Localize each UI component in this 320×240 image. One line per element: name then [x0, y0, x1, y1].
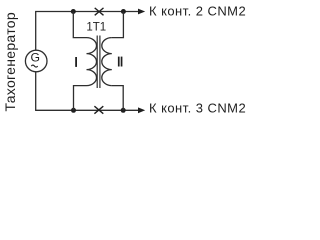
junction node: secondary bottom [121, 108, 126, 113]
label winding I [75, 57, 77, 67]
svg-text:К конт. 3 CNM2: К конт. 3 CNM2 [149, 100, 246, 115]
wire: primary top lead [73, 12, 86, 38]
transformer 1T1 primary winding I [87, 38, 97, 86]
wire: secondary top lead [112, 12, 124, 38]
svg-text:G: G [30, 51, 39, 65]
wire: left vertical upper segment [35, 12, 37, 51]
transformer core [96, 36, 98, 89]
svg-text:Тахогенератор: Тахогенератор [2, 12, 18, 111]
junction node: primary bottom [71, 108, 76, 113]
wire: secondary bottom lead [112, 86, 123, 111]
generator G1 circle [25, 50, 47, 72]
label winding II [118, 57, 120, 67]
svg-text:К конт. 2 CNM2: К конт. 2 CNM2 [149, 3, 246, 18]
connection cross X top [95, 8, 104, 15]
junction node: primary top [71, 9, 76, 14]
connection cross X bottom [94, 106, 103, 114]
arrow to contact 3 [138, 107, 145, 113]
junction node: secondary top [121, 9, 126, 14]
arrow to contact 2 [138, 9, 145, 15]
wire: bottom rail [35, 109, 138, 111]
generator AC tilde [31, 65, 37, 67]
wire: primary bottom lead [74, 86, 87, 111]
wire: top rail [35, 11, 138, 13]
svg-text:1Т1: 1Т1 [86, 22, 106, 34]
wire: left vertical lower segment [35, 72, 37, 110]
transformer 1T1 secondary winding II [102, 38, 112, 86]
